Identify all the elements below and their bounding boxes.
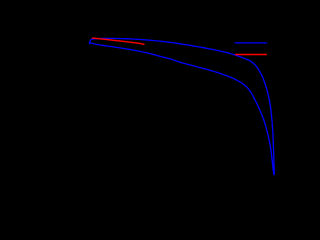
wire xyxy=(93,38,145,44)
wire xyxy=(90,43,275,175)
node A xyxy=(235,42,268,44)
node B xyxy=(235,54,267,56)
wire xyxy=(90,38,275,174)
